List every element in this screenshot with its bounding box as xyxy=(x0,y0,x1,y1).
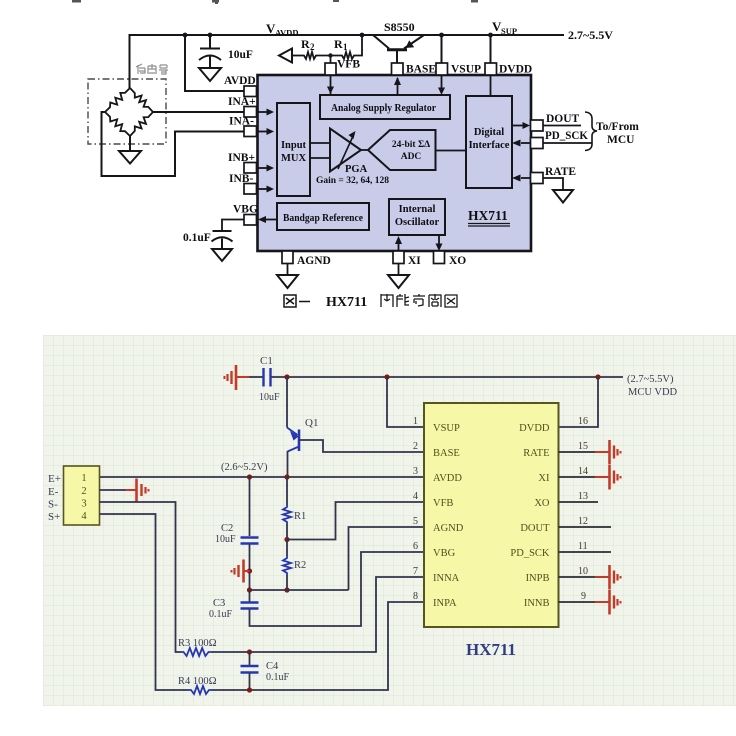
svg-text:2: 2 xyxy=(81,486,86,497)
wire bridge bottom to ground xyxy=(129,136,131,151)
svg-text:C1: C1 xyxy=(260,355,273,367)
Digital Interface box xyxy=(466,96,512,188)
pin 15 RATE stub xyxy=(559,451,597,453)
svg-text:S+: S+ xyxy=(48,511,60,523)
svg-text:PGA: PGA xyxy=(345,164,368,175)
resistor R4 xyxy=(189,686,211,694)
svg-text:S8550: S8550 xyxy=(384,20,415,34)
svg-text:E+: E+ xyxy=(48,473,61,485)
svg-text:BASE: BASE xyxy=(406,64,436,76)
arrow INA+ into MUX xyxy=(257,111,268,113)
svg-text:PD_SCK: PD_SCK xyxy=(510,548,550,559)
svg-text:15: 15 xyxy=(578,441,588,452)
wire Q1 collector xyxy=(287,451,289,477)
resistor R2 xyxy=(302,52,318,59)
svg-text:13: 13 xyxy=(578,491,588,502)
arrow RATE into digital interface xyxy=(521,177,531,179)
svg-text:10uF: 10uF xyxy=(259,392,280,403)
svg-text:INNA: INNA xyxy=(433,573,460,584)
svg-text:C4: C4 xyxy=(266,661,279,672)
svg-text:MCU: MCU xyxy=(607,134,635,146)
svg-text:XO: XO xyxy=(534,498,550,509)
net analog gnd line xyxy=(250,589,349,591)
ground pin15 (red) xyxy=(595,440,621,465)
brace To/From MCU xyxy=(585,112,597,151)
label VAVDD xyxy=(266,21,298,38)
svg-text:AVDD: AVDD xyxy=(275,28,298,38)
pin 13 XO stub xyxy=(559,501,599,503)
svg-text:Bandgap Reference: Bandgap Reference xyxy=(283,213,363,224)
svg-text:Oscillator: Oscillator xyxy=(395,217,440,228)
pin 9 INNB stub xyxy=(559,601,597,603)
svg-text:C3: C3 xyxy=(213,598,225,609)
capacitor C3 xyxy=(249,590,251,602)
wire C2 to gnd node xyxy=(249,544,251,590)
junction R1 top xyxy=(284,474,289,479)
ground at RATE xyxy=(553,190,573,203)
wire BASE from regulator (arrow up) xyxy=(397,78,399,95)
net AVDD rail xyxy=(100,476,425,478)
wire PGA to ADC xyxy=(361,149,368,151)
capacitor C4 xyxy=(249,652,251,665)
ground under XI xyxy=(388,275,409,288)
svg-text:R3 100Ω: R3 100Ω xyxy=(178,638,217,649)
svg-text:(2.6~5.2V): (2.6~5.2V) xyxy=(221,462,268,473)
wire DVDD pin 16 xyxy=(559,377,599,427)
svg-text:DVDD: DVDD xyxy=(499,64,532,76)
wire ADC to digital interface xyxy=(436,150,467,152)
junction R2 bottom xyxy=(284,587,289,592)
label R1 xyxy=(334,37,348,52)
svg-text:1: 1 xyxy=(81,473,86,484)
bridge resistor bottom-right xyxy=(130,112,153,136)
ground at C1 (red) xyxy=(225,365,250,390)
svg-text:DOUT: DOUT xyxy=(546,113,580,125)
wire bridge right node to INA+ xyxy=(153,111,244,113)
capacitor 10uF xyxy=(199,35,221,68)
wire C3 to VBG pin 6 xyxy=(250,552,425,626)
IC U1 HX711 xyxy=(424,403,559,627)
svg-text:VFB: VFB xyxy=(433,498,453,509)
right pin PD_SCK xyxy=(531,138,544,149)
svg-text:INB-: INB- xyxy=(229,173,253,185)
svg-text:3: 3 xyxy=(81,499,86,510)
junction C4 bottom xyxy=(247,687,252,692)
svg-text:HX711: HX711 xyxy=(468,208,508,223)
arrow INB- into MUX xyxy=(257,188,268,190)
svg-text:INA+: INA+ xyxy=(228,96,256,108)
wire VBG to cap xyxy=(222,220,244,231)
junction xyxy=(208,33,213,38)
wire VFB node to pin xyxy=(330,56,332,64)
svg-text:0.1uF: 0.1uF xyxy=(266,672,290,683)
svg-text:10uF: 10uF xyxy=(215,534,236,545)
svg-text:INNB: INNB xyxy=(524,598,550,609)
svg-text:VBG: VBG xyxy=(233,204,258,216)
svg-text:3: 3 xyxy=(413,466,418,477)
wire VFB to pin 4 xyxy=(287,502,424,540)
svg-text:0.1uF: 0.1uF xyxy=(183,232,211,244)
svg-text:6: 6 xyxy=(413,541,418,552)
wire R2 to VFB node xyxy=(318,55,340,57)
svg-text:8: 8 xyxy=(413,591,418,602)
svg-text:HX711: HX711 xyxy=(326,295,367,310)
wire C2 branch xyxy=(249,477,251,536)
ground pin9 (red) xyxy=(595,590,621,615)
svg-text:1: 1 xyxy=(343,42,348,52)
pin BASE box xyxy=(392,63,404,75)
label VSUP rail xyxy=(492,19,517,36)
ADC block (pennant) xyxy=(368,130,436,170)
wire DVDD drop xyxy=(490,35,492,63)
svg-text:12: 12 xyxy=(578,516,588,527)
junction gnd node xyxy=(247,568,252,573)
S8550 emitter arrowhead xyxy=(406,40,415,48)
junction C2 xyxy=(247,474,252,479)
left pin AVDD xyxy=(244,86,257,97)
svg-text:9: 9 xyxy=(581,591,586,602)
Input MUX box xyxy=(277,103,310,196)
junction C4 top xyxy=(247,649,252,654)
ground at E- (red) xyxy=(126,479,149,502)
svg-text:Interface: Interface xyxy=(469,140,510,151)
capacitor C1 xyxy=(264,368,271,387)
bridge resistor top-right xyxy=(130,88,153,112)
svg-text:16: 16 xyxy=(578,416,588,427)
resistor R2 (app) xyxy=(283,556,291,575)
ground at C2 (red) xyxy=(232,560,250,583)
ground pin10 (red) xyxy=(595,565,621,590)
left pin VBG xyxy=(244,215,257,226)
svg-text:10: 10 xyxy=(578,566,588,577)
wire emitter drop xyxy=(286,377,288,428)
svg-text:14: 14 xyxy=(578,466,588,477)
svg-text:1: 1 xyxy=(413,416,418,427)
svg-text:MCU VDD: MCU VDD xyxy=(628,387,678,398)
svg-text:INPB: INPB xyxy=(526,573,550,584)
svg-text:R2: R2 xyxy=(294,560,306,571)
svg-text:Digital: Digital xyxy=(474,127,504,138)
wire AVDD drop xyxy=(185,35,244,91)
svg-text:DVDD: DVDD xyxy=(519,423,550,434)
svg-text:R: R xyxy=(301,37,310,51)
Bandgap Reference box xyxy=(277,203,369,230)
wire VSUP drop xyxy=(441,35,443,63)
junction Q1 emitter xyxy=(284,374,289,379)
Internal Oscillator box xyxy=(389,199,445,235)
wire to R2 xyxy=(292,55,302,57)
svg-text:ADC: ADC xyxy=(401,152,422,162)
junction xyxy=(183,33,188,38)
svg-text:5: 5 xyxy=(413,516,418,527)
pin 10 INPB stub xyxy=(559,576,597,578)
arrow INB+ into MUX xyxy=(257,167,268,169)
left pin INA+ xyxy=(244,107,257,118)
svg-text:AGND: AGND xyxy=(433,523,464,534)
svg-text:Input: Input xyxy=(281,140,307,151)
svg-text:S-: S- xyxy=(48,499,58,511)
wire RATE to ground xyxy=(543,178,563,190)
grid background xyxy=(43,335,736,706)
pin VFB box xyxy=(325,63,336,75)
svg-text:R1: R1 xyxy=(294,511,306,522)
cropped text remnants at top edge xyxy=(72,0,478,4)
svg-text:INPA: INPA xyxy=(433,598,457,609)
bridge resistor bottom-left xyxy=(105,112,130,136)
wire VSUP into regulator (arrow down) xyxy=(441,75,443,88)
caption 图一 (hand-drawn) xyxy=(284,295,310,307)
bridge resistor top-left xyxy=(105,88,130,112)
svg-text:0.1uF: 0.1uF xyxy=(209,609,233,620)
label R2 xyxy=(301,37,315,52)
wire R1 to rail xyxy=(356,35,362,56)
svg-text:RATE: RATE xyxy=(545,166,576,178)
pin 11 PD_SCK stub xyxy=(559,551,612,553)
wire ground to C1 xyxy=(249,376,263,378)
svg-text:C2: C2 xyxy=(221,523,233,534)
wire VSUP pin 1 xyxy=(387,377,424,427)
svg-text:AGND: AGND xyxy=(297,255,331,267)
wires MUX to PGA xyxy=(310,143,330,158)
right pin DOUT xyxy=(531,120,544,131)
svg-text:INB+: INB+ xyxy=(228,152,255,164)
wire S+ run xyxy=(100,514,190,690)
wire bridge left node to INA- (down and around) xyxy=(102,112,245,176)
op-amp PGA xyxy=(330,129,361,172)
wire XI into oscillator (arrow up) xyxy=(398,239,400,251)
svg-text:XI: XI xyxy=(538,473,550,484)
resistor R1 (app) xyxy=(286,477,288,505)
svg-text:Q1: Q1 xyxy=(305,417,318,429)
net VSUP rail junctions xyxy=(439,33,444,38)
pin 14 XI stub xyxy=(559,476,597,478)
wire E- to ground xyxy=(100,489,129,491)
svg-text:VFB: VFB xyxy=(337,59,360,71)
transistor Q1 xyxy=(287,428,299,452)
svg-text:11: 11 xyxy=(578,541,588,552)
svg-text:2.7~5.5V: 2.7~5.5V xyxy=(568,28,613,42)
wire S- run xyxy=(100,502,182,652)
resistor R1 xyxy=(340,52,356,59)
svg-text:10uF: 10uF xyxy=(228,49,253,61)
bottom pin XO xyxy=(434,251,445,264)
wire R3 to pin 7 INNA xyxy=(211,577,424,652)
wire bandgap to VBG pin (arrow left) xyxy=(261,219,277,221)
svg-text:AVDD: AVDD xyxy=(224,75,256,87)
svg-text:Internal: Internal xyxy=(399,204,436,215)
feedback arrow (left) xyxy=(279,49,292,63)
bottom pin XI xyxy=(393,251,404,264)
svg-text:R4 100Ω: R4 100Ω xyxy=(178,676,217,687)
svg-text:AVDD: AVDD xyxy=(433,473,462,484)
svg-text:2: 2 xyxy=(413,441,418,452)
svg-text:R: R xyxy=(334,37,343,51)
svg-text:VBG: VBG xyxy=(433,548,456,559)
arrow INA- into MUX xyxy=(257,131,268,133)
svg-text:24-bit ΣΔ: 24-bit ΣΔ xyxy=(392,140,430,150)
svg-text:XI: XI xyxy=(408,255,421,267)
svg-text:PD_SCK: PD_SCK xyxy=(545,130,588,142)
svg-text:Gain = 32, 64, 128: Gain = 32, 64, 128 xyxy=(316,176,389,186)
PGA gain arrow xyxy=(338,134,354,169)
right pin RATE xyxy=(531,173,544,184)
HX711 main block xyxy=(258,75,532,251)
wire XO from oscillator (arrow down) xyxy=(438,235,440,244)
sensor label 传感器 (hand-drawn glyphs) xyxy=(136,64,168,74)
wire R4 to pin 8 INPA xyxy=(211,602,424,690)
junction xyxy=(360,33,365,38)
pin VSUP box xyxy=(436,63,448,75)
ground at AGND xyxy=(277,275,298,288)
wire AGND to pin 5 xyxy=(349,527,425,590)
Q1 emitter arrowhead xyxy=(290,431,299,441)
left pin labels xyxy=(433,423,464,609)
connector J1 xyxy=(64,466,100,525)
junction C3 top xyxy=(247,587,252,592)
net VAVDD rail xyxy=(130,35,565,88)
arrow PD_SCK into digital interface xyxy=(521,142,531,144)
left pin INB- xyxy=(244,184,257,195)
svg-text:XO: XO xyxy=(449,255,466,267)
arrow DOUT out of digital interface xyxy=(512,125,523,127)
svg-text:HX711: HX711 xyxy=(466,640,516,659)
svg-text:E-: E- xyxy=(48,486,59,498)
capacitor C2 xyxy=(241,538,259,544)
svg-text:Analog Supply Regulator: Analog Supply Regulator xyxy=(331,103,436,114)
left pin numbers xyxy=(413,416,418,602)
resistor R3 xyxy=(181,648,211,656)
node VFB junction xyxy=(328,53,332,57)
svg-text:RATE: RATE xyxy=(523,448,549,459)
svg-text:INA-: INA- xyxy=(229,116,254,128)
pin DVDD box xyxy=(485,63,497,75)
ground under bridge xyxy=(119,151,141,164)
wire DVDD into digital interface xyxy=(490,75,492,96)
svg-text:VSUP: VSUP xyxy=(451,64,481,76)
wire VFB into regulator xyxy=(330,75,332,94)
svg-text:2: 2 xyxy=(310,42,315,52)
svg-text:DOUT: DOUT xyxy=(520,523,550,534)
svg-text:MUX: MUX xyxy=(281,153,306,164)
svg-text:VSUP: VSUP xyxy=(433,423,460,434)
sensor dash-dot box xyxy=(88,79,166,144)
junction VSUP drop xyxy=(384,374,389,379)
svg-text:(2.7~5.5V): (2.7~5.5V) xyxy=(627,374,674,385)
svg-text:4: 4 xyxy=(413,491,418,502)
wire Q1 base to BASE pin xyxy=(299,440,424,452)
left pin INA- xyxy=(244,126,257,137)
svg-text:4: 4 xyxy=(81,511,87,522)
pin 12 DOUT stub xyxy=(559,526,612,528)
junction VFB node xyxy=(284,537,289,542)
ground under 0.1uF xyxy=(212,249,232,261)
Analog Supply Regulator box xyxy=(320,95,450,119)
ground under 10uF xyxy=(199,68,221,81)
svg-text:7: 7 xyxy=(413,566,418,577)
transistor S8550 xyxy=(373,35,424,63)
ground pin14 (red) xyxy=(595,465,621,490)
caption 内部方框图 (hand-drawn) xyxy=(381,294,457,307)
left pin INB+ xyxy=(244,163,257,174)
capacitor 0.1uF xyxy=(212,231,233,249)
junction DVDD drop xyxy=(595,374,600,379)
right pin numbers xyxy=(578,416,588,602)
wire AGND to ground xyxy=(287,264,289,276)
right pin labels xyxy=(510,423,550,609)
svg-text:To/From: To/From xyxy=(596,121,639,133)
bottom pin AGND xyxy=(282,251,293,264)
svg-text:SUP: SUP xyxy=(501,26,517,36)
svg-text:BASE: BASE xyxy=(433,448,460,459)
net VCC rail (bottom) xyxy=(271,376,623,378)
